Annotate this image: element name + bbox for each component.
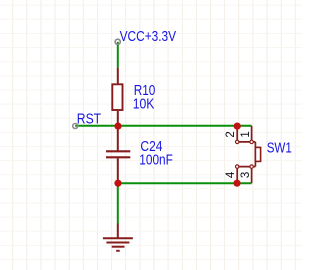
junction node R10/C24/RST	[114, 123, 121, 130]
svg-text:RST: RST	[77, 110, 101, 127]
junction node SW1 top	[234, 123, 241, 130]
button body	[255, 147, 260, 161]
switch SW1	[236, 126, 261, 183]
capacitor C24	[106, 126, 130, 183]
junction node SW1 bottom	[233, 180, 240, 187]
pin 4 lead	[236, 169, 238, 184]
svg-text:1: 1	[240, 131, 252, 137]
power port VCC+3.3V	[115, 39, 120, 44]
wire bottom horizontal to SW1	[118, 182, 252, 184]
svg-text:10K: 10K	[133, 95, 155, 112]
pin 2 contact circle	[236, 140, 239, 143]
bottom contact bar	[237, 166, 255, 168]
svg-text:2: 2	[225, 131, 237, 137]
resistor R10	[112, 68, 122, 126]
svg-text:4: 4	[225, 171, 237, 178]
pin 1 lead	[251, 126, 253, 140]
top contact bar	[237, 141, 255, 143]
wire VCC to R10	[117, 42, 119, 68]
junction node C24/GND	[114, 180, 121, 187]
actuator stem	[254, 142, 256, 167]
pin 4 contact circle	[236, 165, 239, 168]
pin 1 contact circle	[250, 140, 253, 143]
wire RST horizontal	[75, 125, 251, 127]
pin 3 lead	[251, 169, 253, 184]
ground	[103, 224, 133, 251]
port circle RST	[73, 124, 78, 129]
svg-text:100nF: 100nF	[139, 152, 173, 169]
svg-text:3: 3	[240, 172, 252, 178]
wire down to ground	[117, 183, 119, 223]
svg-text:SW1: SW1	[267, 140, 292, 157]
pin 2 lead	[236, 126, 238, 140]
pin 3 contact circle	[250, 165, 253, 168]
svg-text:VCC+3.3V: VCC+3.3V	[120, 28, 177, 45]
